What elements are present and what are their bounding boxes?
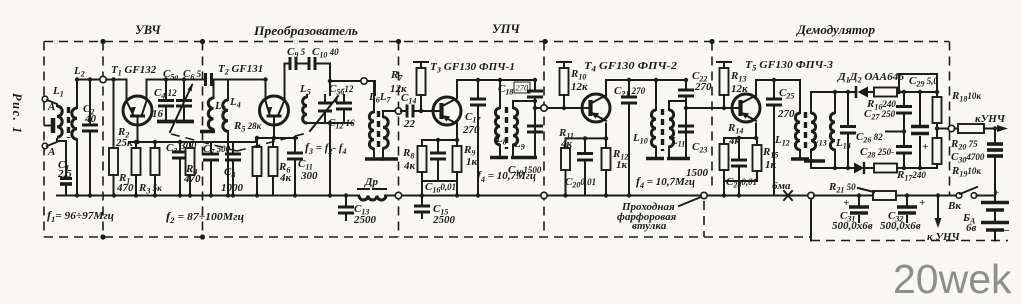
wire T5 collector <box>756 80 799 97</box>
svg-text:4к: 4к <box>403 160 416 172</box>
resistor R10 <box>560 68 569 95</box>
tank bottom wire <box>305 123 352 196</box>
junction dot top border x=398 <box>396 39 401 44</box>
capacitor C30 <box>994 129 996 196</box>
svg-text:f4 = 10,7Мгц: f4 = 10,7Мгц <box>477 168 536 184</box>
svg-text:−: − <box>1003 225 1010 237</box>
svg-text:УПЧ: УПЧ <box>492 22 520 36</box>
capacitor C16 <box>424 140 457 181</box>
feedthrough node divider x=398 <box>395 108 401 114</box>
svg-text:+: + <box>922 141 928 153</box>
transistor T1 <box>123 96 152 125</box>
wire T1 base down <box>137 116 139 142</box>
svg-text:270: 270 <box>462 124 480 136</box>
wire C22 to T5 base <box>686 107 733 109</box>
svg-text:А: А <box>47 146 55 158</box>
switch Vk <box>956 193 962 199</box>
variable capacitor C12 <box>324 95 326 123</box>
svg-text:270: 270 <box>516 83 530 93</box>
wire T3 collector <box>457 80 535 97</box>
svg-text:470: 470 <box>116 182 134 194</box>
svg-text:500,0х6в: 500,0х6в <box>832 220 873 232</box>
resistor R9 <box>453 146 462 172</box>
svg-text:1000: 1000 <box>221 182 244 194</box>
resistor R14 <box>720 144 729 170</box>
emitter bus T5 <box>724 137 757 139</box>
stage divider dashed x=704 lower <box>703 201 705 237</box>
stage divider dashed x=544 <box>543 42 545 238</box>
capacitor C8 <box>232 142 234 196</box>
stage divider dashed x=712 upper <box>711 42 713 191</box>
capacitor C1 <box>57 141 66 196</box>
outer dashed border left <box>43 42 45 238</box>
transistor T3 <box>433 97 461 125</box>
capacitor C20 <box>584 138 586 195</box>
wire T4 emitter <box>605 124 607 139</box>
wire T2 collector up <box>284 64 286 101</box>
wire R19 bottom to rail <box>936 164 938 168</box>
transistor T4 <box>582 94 610 122</box>
wire to feedthrough <box>535 107 581 109</box>
L1 L2 core <box>67 107 70 138</box>
outer dashed border top <box>44 41 949 43</box>
feedthrough node rail x=811 <box>808 192 814 198</box>
svg-text:f2 = 87÷100Мгц: f2 = 87÷100Мгц <box>166 209 244 225</box>
ground rail wire <box>57 195 811 197</box>
capacitor C7 <box>210 142 212 196</box>
resistor R5 body <box>253 147 262 176</box>
demodulator dashed border right <box>949 42 951 196</box>
resistor R21 on rail <box>814 195 873 197</box>
resistor R18 <box>933 97 942 123</box>
wire antenna to L1 <box>47 100 57 146</box>
collector top wire <box>285 64 376 96</box>
stage divider dashed x=398 <box>398 42 400 238</box>
svg-text:кУНЧ: кУНЧ <box>975 113 1006 125</box>
diode D2 <box>811 167 855 169</box>
junction dot bottom border x=103 <box>100 234 105 239</box>
base bus wire <box>130 141 190 143</box>
mid node wire <box>886 131 904 133</box>
feedthrough node right border <box>948 125 954 131</box>
svg-text:12к: 12к <box>571 81 588 93</box>
wire tank to T2 emitter <box>228 79 266 81</box>
capacitor C19 <box>534 126 536 157</box>
resistor R15 <box>753 145 762 171</box>
svg-text:270: 270 <box>777 108 795 120</box>
wire T2 emitter up <box>265 80 267 102</box>
wire x=811 down to border <box>810 199 812 241</box>
capacitor C11 <box>294 138 296 196</box>
emitter bus T2 <box>190 138 297 142</box>
resistor R6 <box>269 147 278 176</box>
svg-text:УВЧ: УВЧ <box>135 23 161 37</box>
stage divider dashed x=202.5 <box>202 42 204 238</box>
hop node circle <box>361 78 367 84</box>
wire T3 emitter <box>456 124 458 141</box>
resistor R13 <box>720 68 729 95</box>
svg-text:2500: 2500 <box>353 214 377 226</box>
svg-text:Рис. 1: Рис. 1 <box>10 93 24 135</box>
svg-text:20wek: 20wek <box>893 256 1012 302</box>
emitter bus T3 <box>422 139 457 141</box>
resistor R17 <box>866 167 874 169</box>
svg-text:+: + <box>919 197 925 209</box>
svg-text:470: 470 <box>183 173 201 185</box>
capacitor C22 <box>685 80 687 126</box>
svg-text:22: 22 <box>403 118 416 130</box>
svg-text:1к: 1к <box>466 156 478 168</box>
outer dashed border bottom <box>44 236 810 238</box>
resistor R12 <box>602 148 611 170</box>
svg-text:1к: 1к <box>616 159 628 171</box>
svg-text:300: 300 <box>300 170 318 182</box>
feedthrough node divider x=544 rail <box>541 192 547 198</box>
svg-text:+: + <box>843 197 849 209</box>
svg-text:270: 270 <box>694 81 712 93</box>
capacitor C23 <box>685 126 687 157</box>
wire C14 to T3 base <box>413 110 434 112</box>
feedthrough node divider x=544 signal <box>541 105 547 111</box>
svg-text:Др: Др <box>364 176 379 188</box>
capacitor C24 <box>725 138 757 196</box>
svg-text:Преобразователь: Преобразователь <box>253 24 358 38</box>
svg-text:втулка: втулка <box>632 220 667 232</box>
svg-text:40: 40 <box>84 113 97 125</box>
svg-text:Вк: Вк <box>947 200 961 212</box>
rail junction dots <box>112 193 116 197</box>
wire T4 collector <box>606 80 686 97</box>
capacitor C21 <box>628 80 630 196</box>
svg-text:500,0х6в: 500,0х6в <box>880 220 921 232</box>
bottom-right dashed border <box>811 240 1008 242</box>
capacitor C17 <box>477 80 479 196</box>
svg-text:6в: 6в <box>966 222 977 234</box>
shield tap bar <box>45 125 51 127</box>
resistor R20 <box>955 128 959 130</box>
antenna terminal A bottom <box>42 143 48 149</box>
svg-text:2500: 2500 <box>432 214 456 226</box>
inductor L1 <box>57 106 62 137</box>
output wire to kUNCH <box>937 128 948 130</box>
node junction dots L2 C2 top <box>75 77 79 81</box>
wire to C14 <box>401 110 405 112</box>
wire T1 collector up <box>147 80 167 102</box>
svg-text:f4 = 10,7Мгц: f4 = 10,7Мгц <box>636 174 695 190</box>
resistor R3 <box>151 148 160 175</box>
main signal wire y=79.5 <box>77 79 228 81</box>
resistor R16 <box>874 88 897 97</box>
gang arrow through C5a <box>170 85 192 132</box>
resistor R19 <box>933 138 942 164</box>
feedthrough node on divider <box>100 76 106 82</box>
gang arrow through C12 <box>310 96 338 131</box>
wire T1 emitter up <box>126 80 128 102</box>
junction dot top border x=103 <box>100 39 105 44</box>
resistor R1 <box>132 148 141 175</box>
capacitor C31 electrolytic <box>858 196 860 223</box>
resistor R4 <box>186 148 195 175</box>
svg-text:T5 GF130 ФПЧ-3: T5 GF130 ФПЧ-3 <box>745 59 834 73</box>
svg-text:к УНЧ: к УНЧ <box>927 231 961 243</box>
resistor R8 <box>418 146 427 172</box>
wire T2 base down <box>273 116 275 138</box>
svg-text:12к: 12к <box>390 83 407 95</box>
svg-text:f1= 96÷97Мгц: f1= 96÷97Мгц <box>47 208 114 224</box>
resistor R7 <box>417 68 426 95</box>
capacitor C3 <box>179 142 181 196</box>
svg-text:4к: 4к <box>560 138 573 150</box>
emitter bus T4 <box>566 137 607 139</box>
capacitor C32 electrolytic <box>906 196 908 223</box>
svg-text:T4 GF130 ФПЧ-2: T4 GF130 ФПЧ-2 <box>584 60 678 74</box>
capacitor C25 <box>773 80 775 196</box>
gang dash line <box>171 133 307 151</box>
svg-text:T3 GF130 ФПЧ-1: T3 GF130 ФПЧ-1 <box>430 61 515 75</box>
svg-text:+: + <box>993 187 999 199</box>
capacitor C2 <box>89 80 91 196</box>
battery BA <box>977 196 996 202</box>
capacitor C13 <box>345 196 347 221</box>
svg-text:2,5: 2,5 <box>57 168 72 180</box>
wire T5 emitter <box>755 124 757 139</box>
stage divider dashed x=103 <box>102 42 104 238</box>
resistor R2 <box>109 148 118 175</box>
feedthrough node divider x=398 rail <box>395 192 401 198</box>
svg-text:6ма: 6ма <box>772 180 791 192</box>
svg-text:4к: 4к <box>279 172 292 184</box>
svg-text:Демодулятор: Демодулятор <box>796 23 875 37</box>
resistor R11 <box>561 148 570 170</box>
antenna terminal A top <box>42 96 48 102</box>
transistor T5 <box>732 94 760 122</box>
capacitor C15 below rail <box>421 196 423 219</box>
feedthrough node rail x=704 <box>701 192 707 198</box>
top node wire to R18 <box>899 74 937 99</box>
transistor T2 <box>260 96 289 125</box>
svg-text:16: 16 <box>152 108 164 120</box>
kUNCH arrow lower <box>937 196 939 219</box>
